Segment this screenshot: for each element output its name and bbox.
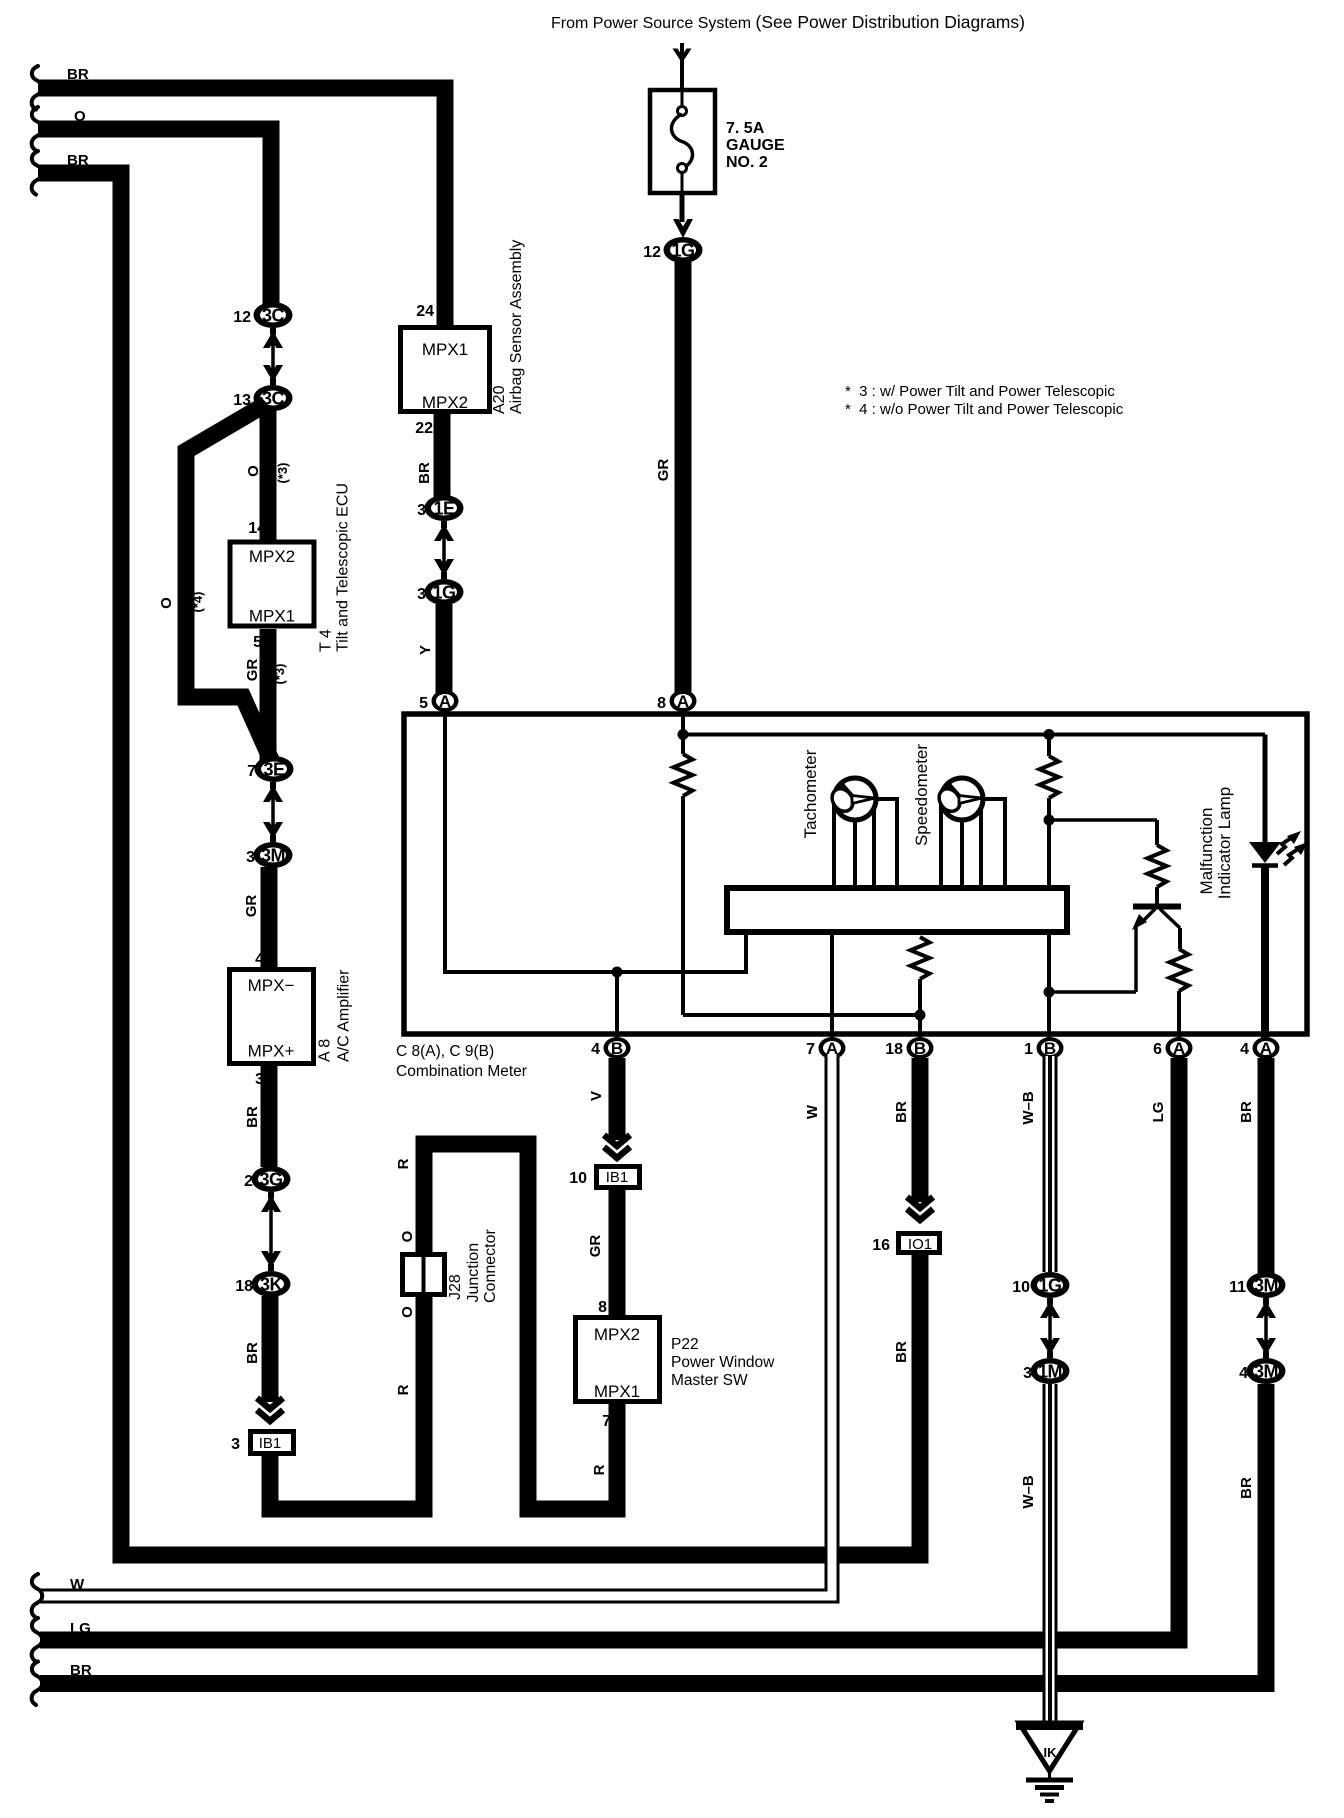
svg-text:NO. 2: NO. 2 (726, 154, 768, 171)
svg-text:Indicator Lamp: Indicator Lamp (1215, 787, 1234, 899)
junction node above 1(B) (1044, 987, 1055, 998)
svg-text:3: 3 (1023, 1365, 1032, 1382)
svg-text:From Power Source System (See: From Power Source System (See Power Dist… (551, 12, 1025, 32)
svg-text:7: 7 (806, 1041, 815, 1058)
wire BR: 18(3K) to 3(IB1) (244, 1296, 283, 1421)
wire GR: 12(1G) to combination meter pin 8(A) (655, 260, 683, 695)
wire O(*3): 13(3C) to T4 pin 14 (245, 410, 290, 541)
svg-text:BR: BR (1238, 1101, 1255, 1123)
svg-text:3M: 3M (1254, 1362, 1278, 1382)
wire LG: 6(A) to left break (32, 1058, 1179, 1662)
junction node at transistor base branch (1044, 815, 1055, 826)
meter pin 6 (A) (1153, 1037, 1192, 1059)
svg-text:C 8(A), C 9(B): C 8(A), C 9(B) (396, 1043, 494, 1060)
svg-text:BR: BR (244, 1342, 261, 1364)
connector 16 (IO1) (872, 1234, 939, 1255)
svg-text:MPX1: MPX1 (249, 607, 295, 626)
resistor: transistor base resistor (1148, 845, 1167, 904)
svg-text:8: 8 (598, 1299, 607, 1316)
connector 3 (1G) steering (417, 579, 463, 605)
svg-text:IO1: IO1 (908, 1236, 932, 1253)
svg-text:BR: BR (67, 66, 89, 83)
svg-text:B: B (914, 1039, 926, 1058)
svg-text:A 8: A 8 (317, 1039, 334, 1062)
svg-text:24: 24 (416, 303, 434, 320)
meter pin 1 (B) (1024, 1037, 1063, 1059)
svg-text:(*4): (*4) (190, 592, 205, 613)
junction arrows between 7(3E) and 3(3M) (263, 782, 283, 842)
svg-text:MPX2: MPX2 (249, 547, 295, 566)
svg-text:BR: BR (893, 1101, 910, 1123)
connector 3 (3M) (246, 842, 292, 868)
svg-text:Power Window: Power Window (671, 1354, 775, 1371)
svg-text:Speedometer: Speedometer (912, 744, 931, 846)
svg-text:6: 6 (1153, 1041, 1162, 1058)
svg-text:B: B (611, 1039, 623, 1058)
svg-text:A/C Amplifier: A/C Amplifier (336, 969, 353, 1062)
connector 11 (3M) (1229, 1272, 1285, 1298)
label C 8(A), C 9(B) Combination Meter (396, 1043, 527, 1080)
svg-text:MPX−: MPX− (248, 976, 295, 995)
fuse value label 7. 5A GAUGE NO. 2 (726, 120, 785, 171)
svg-text:A: A (677, 692, 689, 711)
transistor Q (MIL driver) (1132, 907, 1181, 950)
svg-text:Tachometer: Tachometer (801, 749, 820, 838)
wire V: 4(B) to 10(IB1) (588, 1058, 630, 1158)
resistor: middle resistor to 18(B) (911, 937, 930, 1016)
svg-text:O: O (158, 597, 175, 609)
connector 7 (3E) (247, 756, 293, 782)
tachometer gauge (828, 778, 897, 887)
svg-text:Combination Meter: Combination Meter (396, 1063, 527, 1080)
svg-text:7: 7 (247, 763, 256, 780)
meter circuit plate bar (727, 888, 1067, 932)
label Malfunction Indicator Lamp (1197, 787, 1234, 899)
wire Y: 3(1G) to meter pin 5(A) (417, 604, 444, 695)
svg-text:18: 18 (885, 1041, 903, 1058)
svg-text:5: 5 (419, 695, 428, 712)
resistor: collector resistor to 6(A) (1170, 949, 1189, 1042)
svg-text:10: 10 (1012, 1279, 1030, 1296)
junction node on top rail (1044, 729, 1055, 740)
svg-text:1G: 1G (432, 583, 455, 603)
svg-text:3M: 3M (1254, 1276, 1278, 1296)
wire: plate to 7(A) (830, 933, 834, 1042)
svg-text:1: 1 (1024, 1041, 1033, 1058)
svg-text:LG: LG (1150, 1102, 1167, 1123)
svg-text:GAUGE: GAUGE (726, 137, 785, 154)
svg-text:B: B (1044, 1039, 1056, 1058)
svg-text:22: 22 (415, 420, 433, 437)
svg-text:(*3): (*3) (275, 463, 290, 484)
meter pin 4 (B) (591, 1037, 630, 1059)
wire: 5(A) internal to meter plate and 4(B) (445, 712, 746, 1042)
wire BR: power feed to A20 pin 24 (32, 66, 445, 328)
svg-text:4: 4 (1240, 1041, 1249, 1058)
wire BR: A8 pin 3 to 2(3G) (244, 1066, 269, 1167)
svg-text:IB1: IB1 (606, 1169, 629, 1186)
svg-text:3M: 3M (261, 846, 285, 866)
amplifier A8 A/C Amplifier box (230, 970, 314, 1064)
connector 3 (1M) (1023, 1358, 1069, 1384)
svg-text:1E: 1E (433, 499, 455, 519)
svg-text:R: R (395, 1158, 412, 1169)
svg-text:Airbag Sensor Assembly: Airbag Sensor Assembly (508, 240, 525, 414)
junction arrows between 2(3G) and 18(3K) (261, 1192, 281, 1271)
wire color labels around J28 (395, 1158, 608, 1475)
svg-text:A20: A20 (491, 385, 508, 414)
junction node at 5(A)/4(B) branch (612, 967, 623, 978)
svg-text:W–B: W–B (1020, 1091, 1037, 1125)
wire: top rail inside meter to MIL (683, 735, 1265, 845)
svg-text:J28: J28 (447, 1274, 464, 1300)
connector 10 (IB1) (569, 1167, 639, 1188)
svg-text:A: A (1260, 1039, 1272, 1058)
svg-text:T 4: T 4 (318, 629, 335, 652)
svg-text:LG: LG (70, 1620, 91, 1637)
svg-text:IB1: IB1 (259, 1435, 282, 1452)
svg-text:1M: 1M (1038, 1362, 1062, 1382)
junction node under middle resistor (915, 1010, 926, 1021)
svg-text:3G: 3G (259, 1170, 282, 1190)
svg-text:BR: BR (244, 1106, 261, 1128)
connector 18 (3K) (235, 1271, 290, 1297)
svg-text:BR: BR (416, 462, 433, 484)
connector 3 (IB1) (231, 1432, 293, 1454)
svg-text:MPX+: MPX+ (248, 1042, 295, 1061)
svg-text:A: A (1173, 1039, 1185, 1058)
svg-text:Tilt and Telescopic ECU: Tilt and Telescopic ECU (335, 483, 352, 652)
svg-text:1G: 1G (1038, 1276, 1061, 1296)
wire R/O: 3(IB1) through J28 to P22 pin 7 (270, 1144, 617, 1509)
junction arrows between 10(1G) and 3(1M) (1040, 1298, 1060, 1358)
svg-text:W: W (804, 1104, 821, 1119)
wire: feed from power source into fuse (673, 43, 692, 88)
label A20 Airbag Sensor Assembly (491, 240, 525, 414)
svg-text:R: R (395, 1384, 412, 1395)
svg-text:O: O (74, 108, 86, 125)
svg-text:Junction: Junction (465, 1243, 482, 1303)
svg-text:W–B: W–B (1020, 1475, 1037, 1509)
svg-text:BR: BR (67, 152, 89, 169)
wire GR: 3(3M) to A8 pin 4 (243, 867, 269, 969)
svg-text:10: 10 (569, 1170, 587, 1187)
svg-text:P22: P22 (671, 1336, 699, 1353)
wire BR: power feed down left side to 16(IO1)/18(B) (32, 151, 920, 1555)
connector 12 (1G) (643, 237, 702, 263)
junction arrows between 11(3M) and 4(3M) (1256, 1298, 1276, 1358)
wire: fuse to connector 12(1G) (673, 193, 693, 238)
svg-text:3C: 3C (262, 306, 285, 326)
svg-text:12: 12 (233, 309, 251, 326)
wire O: power feed to 12(3C) (32, 107, 271, 305)
svg-text:12: 12 (643, 244, 661, 261)
wire BR: A20 pin 22 to 3(1E) (415, 414, 442, 502)
svg-text:1G: 1G (671, 241, 694, 261)
meter pin 8 (A) (657, 690, 696, 712)
wire W-B: 1(B) to 10(1G) (1020, 1056, 1050, 1272)
svg-text:R: R (591, 1464, 608, 1475)
fuse 7.5A GAUGE NO.2 (650, 90, 715, 193)
svg-text:MPX1: MPX1 (422, 340, 468, 359)
svg-text:3: 3 (417, 586, 426, 603)
svg-text:GR: GR (655, 459, 672, 482)
svg-text:Malfunction: Malfunction (1197, 808, 1216, 895)
connector 3 (1E) (417, 495, 463, 521)
svg-text:Y: Y (417, 645, 434, 655)
svg-text:3: 3 (417, 502, 426, 519)
wire GR: 10(IB1) to P22 pin 8 (587, 1190, 617, 1317)
svg-text:Master SW: Master SW (671, 1372, 748, 1389)
connector 10 (1G) (1012, 1272, 1069, 1298)
wire W-B: 3(1M) to ground IK (1020, 1384, 1050, 1723)
connector 2 (3G) (244, 1166, 290, 1192)
svg-text:4: 4 (1239, 1365, 1248, 1382)
svg-text:7. 5A: 7. 5A (726, 120, 765, 137)
svg-text:A: A (439, 692, 451, 711)
meter pin 4 (A) (1240, 1037, 1279, 1059)
connector 13 (3C) (233, 385, 292, 411)
label P22 Power Window Master SW (671, 1336, 775, 1389)
combination meter box C8(A) C9(B) (404, 714, 1307, 1034)
label T4 Tilt and Telescopic ECU (318, 483, 352, 652)
svg-text:8: 8 (657, 695, 666, 712)
junction node below 8(A) (678, 729, 689, 740)
svg-text:V: V (588, 1091, 605, 1101)
svg-text:3E: 3E (263, 760, 285, 780)
svg-text:7: 7 (602, 1413, 611, 1430)
svg-text:4: 4 (591, 1041, 600, 1058)
svg-text:W: W (70, 1576, 85, 1593)
svg-text:BR: BR (1238, 1477, 1255, 1499)
switch P22 Power Window Master SW box (576, 1318, 660, 1431)
svg-text:4: 4 (255, 951, 264, 968)
ground IK (1016, 1723, 1083, 1801)
svg-text:MPX2: MPX2 (422, 393, 468, 412)
svg-text:2: 2 (244, 1173, 253, 1190)
svg-text:* 3 : w/ Power Tilt and Power: * 3 : w/ Power Tilt and Power Telescopic (845, 383, 1115, 400)
svg-text:GR: GR (244, 659, 261, 682)
junction arrows between 12(3C) and 13(3C) (263, 328, 283, 385)
wire W: 7(A) to left break (32, 1054, 832, 1618)
wire BR: 4(3M) to left break (32, 1384, 1266, 1705)
wire GR(*3): T4 pin 5 to 7(3E) (244, 629, 287, 762)
svg-text:3: 3 (231, 1436, 240, 1453)
meter pin 7 (A) (806, 1037, 845, 1059)
label A8 A/C Amplifier (317, 969, 353, 1062)
svg-text:MPX1: MPX1 (594, 1382, 640, 1401)
svg-text:O: O (399, 1230, 416, 1242)
svg-text:3K: 3K (260, 1275, 283, 1295)
svg-text:GR: GR (587, 1235, 604, 1258)
svg-text:MPX2: MPX2 (594, 1325, 640, 1344)
meter pin 5 (A) (419, 690, 458, 712)
svg-text:O: O (399, 1306, 416, 1318)
ECU T4 Tilt and Telescopic ECU box (230, 542, 314, 626)
connector 4 (3M) (1239, 1358, 1285, 1384)
svg-text:16: 16 (872, 1237, 890, 1254)
svg-text:BR: BR (893, 1341, 910, 1363)
note *3 / *4 telescopic options (845, 383, 1124, 418)
junction arrows between 3(1E) and 3(1G) (434, 521, 454, 579)
wire BR: 4(A) to 11(3M) (1238, 1058, 1266, 1275)
svg-text:(*3): (*3) (272, 664, 287, 685)
svg-text:GR: GR (243, 895, 260, 918)
connector 12 (3C) (233, 302, 292, 328)
svg-text:O: O (245, 465, 262, 477)
junction connector J28 (403, 1255, 445, 1295)
wire BR: 18(B) to 16(IO1) (893, 1058, 933, 1220)
wire: resistor branch to transistor and 1(B) (1040, 735, 1158, 887)
svg-text:3: 3 (246, 849, 255, 866)
svg-text:BR: BR (70, 1662, 92, 1679)
svg-text:11: 11 (1229, 1279, 1246, 1296)
svg-text:IK: IK (1044, 1745, 1058, 1760)
meter pin 18 (B) (885, 1037, 933, 1059)
label J28 Junction Connector (447, 1229, 499, 1303)
svg-text:Connector: Connector (482, 1229, 499, 1303)
speedometer gauge (935, 778, 1005, 887)
wire: 8(A) internal with resistor to 18(B) row (674, 712, 921, 1042)
wire: below plate to 1(B) and emitter (1049, 926, 1136, 1042)
svg-text:* 4 : w/o Power Tilt and Powe: * 4 : w/o Power Tilt and Power Telescopi… (845, 401, 1124, 418)
sensor A20 Airbag Sensor Assembly box (401, 303, 490, 412)
wire O(*4): bypass around T4 ECU (158, 404, 272, 762)
LED malfunction indicator lamp (1249, 831, 1308, 1040)
svg-text:18: 18 (235, 1278, 253, 1295)
